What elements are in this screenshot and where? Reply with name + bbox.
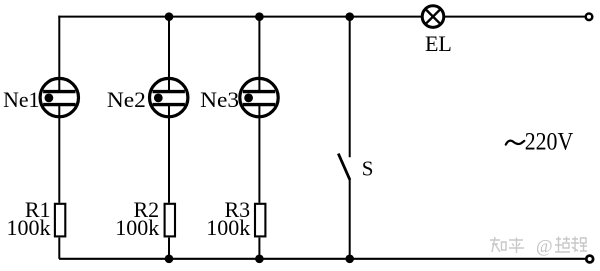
svg-text:100k: 100k	[115, 215, 159, 240]
svg-text:100k: 100k	[206, 215, 250, 240]
svg-text:@: @	[536, 236, 553, 256]
svg-text:220V: 220V	[525, 129, 574, 156]
svg-text:Ne1: Ne1	[3, 87, 39, 112]
svg-text:S: S	[362, 157, 374, 181]
svg-text:EL: EL	[425, 31, 452, 56]
svg-text:100k: 100k	[7, 215, 51, 240]
svg-text:Ne3: Ne3	[200, 87, 239, 112]
svg-text:Ne2: Ne2	[107, 87, 146, 112]
